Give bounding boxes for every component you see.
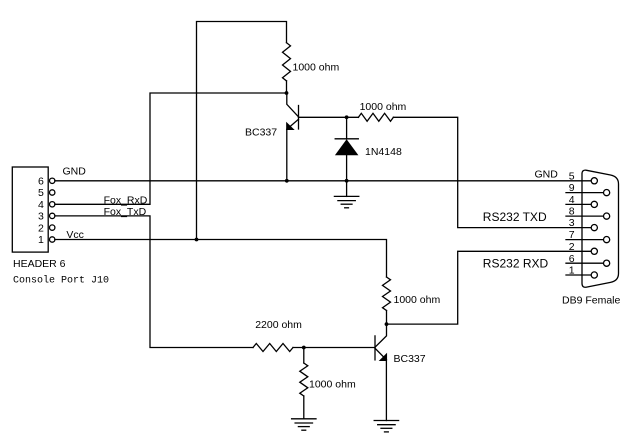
svg-text:1000 ohm: 1000 ohm [360,101,407,113]
wire GND rail: J10 pin6 to DB9 pin5 [55,180,591,182]
wire Q1 base to R2 / D1 node [299,116,359,118]
svg-text:2: 2 [569,241,575,253]
svg-text:GND: GND [63,166,87,178]
ground (under R6) [292,419,316,430]
wire R6 to ground [303,396,305,419]
transistor Q2 BC337 (bottom, NPN, base on left) [375,324,387,361]
J10 pin 2 [38,222,55,234]
svg-text:DB9 Female: DB9 Female [562,294,621,306]
wire Q2 emitter to ground [385,360,387,421]
resistor R6 1000 ohm (Q2 base pulldown) [300,363,308,396]
svg-text:8: 8 [569,206,575,218]
DB9 pin 9 [566,182,610,196]
wire R5 to Q2 base [293,347,375,349]
J10 pin 4 [38,199,55,211]
svg-text:6: 6 [38,176,44,188]
svg-text:5: 5 [569,170,575,182]
svg-text:GND: GND [535,168,559,180]
wire Q1 emitter to GND rail [286,129,288,181]
svg-text:1000 ohm: 1000 ohm [394,294,441,306]
svg-text:2200 ohm: 2200 ohm [255,319,302,331]
J10 pin 1 [38,234,55,246]
junction: Q2 base / R5 / R6 [302,346,306,350]
junction: Q2 collector / R4 / RXD [385,322,389,326]
DB9 pin 2 [569,241,598,255]
DB9 pin 5 [569,170,598,184]
svg-text:4: 4 [569,194,575,206]
wire Q2 collector to DB9 pin2 (RS232 RXD) [387,251,592,324]
svg-text:BC337: BC337 [394,353,426,365]
svg-text:3: 3 [569,217,575,229]
svg-text:RS232 TXD: RS232 TXD [483,210,547,224]
ground (under Q2 emitter) [374,421,398,432]
wire R2 to DB9 pin3 (RS232 TXD) [393,117,591,227]
wire Vcc: J10 pin1 right then down to R4 [55,240,387,278]
DB9 pin 1 [566,265,597,279]
connector J10 HEADER 6 body [12,167,48,252]
wire Fox_RxD: J10 pin4 up to Q1 collector node [55,93,287,204]
DB9 pin 6 [566,253,610,267]
svg-text:2: 2 [38,222,44,234]
svg-text:1000 ohm: 1000 ohm [309,379,356,391]
svg-text:1N4148: 1N4148 [365,146,402,158]
svg-text:1000 ohm: 1000 ohm [293,61,340,73]
J10 pin 5 [38,187,55,199]
junction: Q1 base / R2 / D1 [345,115,349,119]
junction: R1 / Q1 collector / Fox_RxD [285,91,289,95]
junction: D1 / ground on GND rail [345,179,349,183]
svg-text:9: 9 [569,182,575,194]
resistor R4 1000 ohm (Q2 collector pull-up) [383,277,391,311]
svg-text:BC337: BC337 [245,126,277,138]
DB9 pin 3 [569,217,598,231]
junction: Vcc branch [195,238,199,242]
diode D1 1N4148 [335,117,359,181]
svg-text:Console Port J10: Console Port J10 [13,275,109,287]
svg-text:3: 3 [38,211,44,223]
junction: Q1 emitter on GND rail [285,179,289,183]
svg-text:1: 1 [38,234,44,246]
svg-text:6: 6 [569,253,575,265]
wire R1 bottom to collector node [286,81,288,93]
svg-text:HEADER 6: HEADER 6 [13,258,66,270]
J10 pin 6 [38,176,55,188]
wire D1 node to ground [346,181,348,197]
wire base node down to R6 [303,348,305,364]
connector DB9 Female shell [582,170,619,287]
wire R4 bottom to Q2 collector node [386,311,388,325]
svg-text:1: 1 [569,265,575,277]
J10 pin 3 [38,211,55,223]
DB9 pin 4 [566,194,597,207]
svg-text:RS232 RXD: RS232 RXD [483,256,549,270]
resistor R2 1000 ohm (Q1 base series) [358,113,393,121]
svg-text:4: 4 [38,199,44,211]
DB9 pin 8 [566,206,610,220]
ground (under D1) [334,196,358,207]
wire Fox_TxD: J10 pin3 down to 2200 ohm resistor [55,216,253,348]
resistor R1 1000 ohm (Q1 collector pull-up) [283,43,291,81]
DB9 pin 7 [566,229,610,243]
wire Vcc branch up-over to R1 [197,22,287,240]
transistor Q1 BC337 (top, NPN, base on right) [286,93,298,130]
svg-text:7: 7 [569,229,575,241]
resistor R5 2200 ohm (Q2 base series) [253,344,293,352]
svg-text:5: 5 [38,187,44,199]
